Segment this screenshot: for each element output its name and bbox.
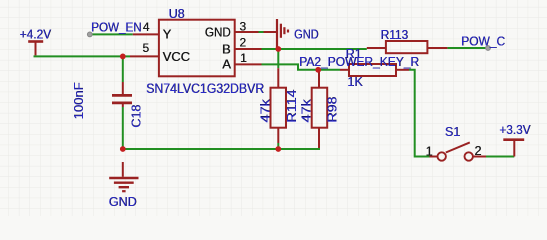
svg-text:1: 1 [426, 144, 433, 158]
svg-text:GND: GND [109, 195, 137, 209]
svg-text:GND: GND [205, 25, 231, 40]
svg-text:3: 3 [239, 20, 246, 34]
svg-text:POW_EN: POW_EN [91, 21, 142, 35]
svg-text:A: A [222, 57, 231, 72]
svg-text:C18: C18 [130, 105, 144, 128]
svg-text:S1: S1 [445, 125, 460, 139]
svg-text:Y: Y [163, 27, 172, 42]
svg-text:R114: R114 [285, 90, 299, 123]
svg-text:+4.2V: +4.2V [20, 28, 52, 42]
svg-text:+3.3V: +3.3V [499, 123, 531, 137]
svg-text:1: 1 [240, 51, 247, 65]
svg-text:U8: U8 [169, 7, 185, 21]
svg-text:47k: 47k [259, 99, 273, 123]
svg-text:GND: GND [294, 28, 319, 42]
svg-text:VCC: VCC [163, 49, 190, 64]
svg-text:4: 4 [143, 20, 150, 34]
svg-text:2: 2 [474, 144, 481, 158]
svg-text:1K: 1K [347, 75, 363, 89]
svg-text:B: B [222, 41, 231, 56]
svg-text:R113: R113 [381, 28, 409, 42]
svg-text:PA2_POWER_KEY_R: PA2_POWER_KEY_R [299, 55, 419, 69]
svg-text:5: 5 [142, 41, 149, 55]
svg-text:100nF: 100nF [72, 82, 86, 119]
svg-text:SN74LVC1G32DBVR: SN74LVC1G32DBVR [146, 81, 264, 96]
svg-text:2: 2 [239, 35, 246, 49]
svg-text:47k: 47k [300, 99, 314, 123]
svg-text:R98: R98 [326, 97, 340, 123]
svg-text:POW_C: POW_C [461, 35, 505, 49]
